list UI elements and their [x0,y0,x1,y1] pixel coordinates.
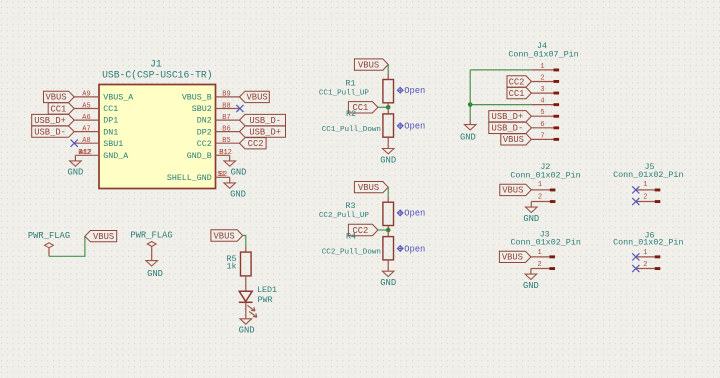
global label USB_D+ (J1 B6) [240,126,286,137]
ground symbol at J3 pin2 [530,269,532,275]
global label VBUS above R3 [354,182,388,193]
power flag PFLAG2 [151,247,153,255]
svg-text:CC1: CC1 [509,89,525,99]
svg-text:R2: R2 [346,109,356,119]
svg-text:A6: A6 [82,114,90,122]
svg-text:Open: Open [404,244,425,254]
global label CC1 (J1 A5) [48,103,74,114]
svg-text:J1: J1 [150,58,162,69]
svg-text:GND: GND [380,278,396,288]
svg-text:1: 1 [643,181,647,189]
svg-text:1: 1 [540,63,544,71]
global label USB_D+ (J1 A6) [32,114,74,125]
ground symbol at J1 SHELL_GND [229,177,231,183]
svg-text:CC1: CC1 [103,105,118,114]
svg-text:DP2: DP2 [197,128,212,137]
svg-text:R4: R4 [346,232,356,242]
J5 pin 1 [636,189,655,191]
ground symbol at J2 pin2 [530,202,532,208]
resistor R1 CC1_Pull_UP [387,73,389,80]
global label VBUS above R1 [354,59,388,70]
ground symbol below R4 [387,266,389,272]
junction CC2 node [386,228,391,233]
global label VBUS (J3 pin1) [499,251,531,262]
wire R5 to LED1 [245,276,247,291]
global label CC1 at R1/R2 junction [348,102,378,113]
svg-text:PWR: PWR [257,295,272,305]
svg-text:5: 5 [540,109,544,117]
J3 pin 2 [531,268,550,270]
DNP Open flag of R4 [397,246,403,252]
J4 pin 7 [531,138,553,140]
wire PWR_FLAG to VBUS label [49,236,85,256]
J1 pin S1 (SHELL_GND) stacked numbers [216,176,230,178]
global label CC2 (J1 B5) [240,138,267,149]
DNP Open flag of R1 [397,87,403,93]
resistor R4 CC2_Pull_Down [387,230,389,237]
J1 pin A9 (VBUS_A) [74,96,99,98]
global label CC2 at R3/R4 junction [348,224,378,235]
svg-text:CC1_Pull_Down: CC1_Pull_Down [322,126,381,134]
svg-text:GND: GND [523,214,539,224]
resistor R2 CC1_Pull_Down [387,107,389,114]
svg-text:CC2_Pull_Down: CC2_Pull_Down [322,248,381,256]
global label USB_D- (J4 pin6) [489,122,532,133]
J6 pin 1 [636,256,655,258]
svg-text:GND: GND [67,168,83,178]
svg-text:B7: B7 [222,114,230,122]
J6 pin 2 [636,268,655,270]
junction on J4 GND bus [468,102,473,107]
svg-text:2: 2 [643,261,647,269]
svg-text:VBUS: VBUS [93,232,114,242]
J2 pin 1 [531,189,550,191]
svg-text:CC1_Pull_UP: CC1_Pull_UP [319,89,370,97]
svg-text:GND_B: GND_B [187,152,212,161]
svg-text:VBUS: VBUS [358,60,379,70]
svg-text:VBUS: VBUS [502,253,523,263]
svg-text:A7: A7 [82,125,90,133]
J4 pin 2 [531,81,553,83]
junction CC1 node [386,105,391,110]
svg-text:VBUS: VBUS [214,231,235,241]
svg-text:USB_D+: USB_D+ [492,112,524,122]
global label VBUS (J1 A9) [44,91,75,102]
svg-text:B5: B5 [222,137,230,145]
svg-text:VBUS: VBUS [358,183,379,193]
svg-text:A9: A9 [82,91,90,99]
svg-text:USB_D-: USB_D- [34,127,66,137]
J3 pin 1 [531,256,550,258]
svg-text:VBUS: VBUS [45,93,66,103]
J4 pin 5 [531,115,553,117]
svg-text:GND: GND [380,155,396,165]
svg-text:USB_D-: USB_D- [492,124,524,134]
global label CC1 (J4 pin3) [507,87,531,98]
svg-text:B6: B6 [222,125,230,133]
svg-text:Conn_01x02_Pin: Conn_01x02_Pin [511,238,581,248]
no-connect X on J5 pin2 [632,198,639,205]
global label CC2 (J4 pin2) [507,76,531,87]
svg-text:GND: GND [460,133,476,143]
svg-text:2: 2 [643,193,647,201]
no-connect X on J1 pin A8 [71,140,78,147]
global label USB_D- (J1 B7) [240,114,286,125]
svg-text:VBUS_B: VBUS_B [182,94,212,103]
J4 pin 4 [531,104,553,106]
J1 pin A6 (DP1) [74,119,99,121]
svg-text:1k: 1k [226,262,236,272]
svg-text:GND: GND [230,190,246,200]
wire J4 pin4 to GND bus [470,104,531,106]
global label USB_D- (J1 A7) [32,126,74,137]
resistor R5 1k [245,246,247,252]
wire J4 pin1 to GND bus [470,69,531,71]
J4 pin 6 [531,127,553,129]
svg-text:Conn_01x07_Pin: Conn_01x07_Pin [508,49,578,59]
svg-text:Open: Open [404,209,425,219]
wire LED1 to GND [245,302,247,313]
svg-text:CC2: CC2 [197,140,212,149]
svg-text:A8: A8 [82,137,90,145]
svg-text:PWR_FLAG: PWR_FLAG [28,231,70,241]
ground symbol at PWR_FLAG2 [151,255,153,261]
ground symbol at J1 GND_B [229,155,231,161]
no-connect X on J6 pin1 [632,253,639,260]
svg-text:1: 1 [538,181,542,189]
svg-text:B8: B8 [222,102,230,110]
svg-text:CC1: CC1 [50,104,66,114]
svg-text:CC2: CC2 [248,139,264,149]
svg-text:1: 1 [643,249,647,257]
svg-text:LED1: LED1 [257,285,277,295]
svg-text:VBUS_A: VBUS_A [103,94,133,103]
svg-text:7: 7 [540,132,544,140]
LED light arrows [247,305,255,311]
wire CC2 label to junction [378,229,388,231]
global label VBUS (J1 B9) [240,91,270,102]
resistor R3 CC2_Pull_UP [387,196,389,203]
J1 pin B1/B12 (GND_B) with stacked numbers [216,154,230,156]
wire VBUS label to R5 [243,236,246,247]
wire VBUS label to R1 [387,65,389,74]
svg-text:SBU2: SBU2 [192,105,212,114]
J4 pin 1 [531,69,553,71]
svg-text:SHELL_GND: SHELL_GND [167,174,212,183]
global label USB_D+ (J4 pin5) [489,111,532,122]
svg-text:B9: B9 [222,91,230,99]
svg-text:R1: R1 [345,79,355,89]
J4 pin 3 [531,92,553,94]
svg-text:GND: GND [239,326,255,336]
svg-text:VBUS: VBUS [502,186,523,196]
svg-text:VBUS: VBUS [503,135,524,145]
J1 pin A5 (CC1) [74,108,99,110]
svg-text:Open: Open [404,122,425,132]
power flag PFLAG1 [48,248,50,256]
wire VBUS label to R3 [387,187,389,196]
LED D1 (LED1 PWR) [239,291,252,301]
svg-text:Open: Open [404,86,425,96]
wire CC1 label to junction [378,106,388,108]
svg-text:2: 2 [537,261,541,269]
svg-text:4: 4 [540,98,544,106]
ground symbol below LED1 [245,313,247,319]
svg-text:DN1: DN1 [103,128,118,137]
J1 pin B8 (SBU2) [216,108,241,110]
J1 pin B5 (CC2) [216,142,241,144]
svg-text:GND_A: GND_A [103,152,128,161]
svg-text:3: 3 [540,86,544,94]
svg-text:USB_D+: USB_D+ [249,127,281,137]
J1 pin A1/A12/B1/B12 (GND_A) with stacked numbers [75,154,99,156]
svg-text:DN2: DN2 [197,117,212,126]
J5 pin 2 [636,201,655,203]
J2 pin 2 [531,201,550,203]
svg-text:A5: A5 [82,102,90,110]
ground symbol for J4 [469,119,471,125]
ground symbol below R2 [387,143,389,149]
svg-text:GND: GND [231,168,247,178]
J1 pin A8 (SBU1) [74,142,99,144]
svg-text:Conn_01x02_Pin: Conn_01x02_Pin [613,170,683,180]
svg-text:Conn_01x02_Pin: Conn_01x02_Pin [613,238,683,248]
svg-text:6: 6 [540,121,544,129]
connector J1 body [99,85,216,189]
global label VBUS above R5 [211,230,243,241]
DNP Open flag of R2 [397,123,403,129]
svg-text:USB-C(CSP-USC16-TR): USB-C(CSP-USC16-TR) [102,69,212,80]
svg-text:CC2_Pull_UP: CC2_Pull_UP [319,212,370,220]
ground symbol at J1 GND_A [74,155,76,161]
J1 pin B6 (DP2) [216,131,241,133]
J1 pin B7 (DN2) [216,119,241,121]
svg-text:2: 2 [538,193,542,201]
svg-text:VBUS: VBUS [247,93,268,103]
svg-text:PWR_FLAG: PWR_FLAG [130,230,172,240]
svg-text:GND: GND [147,269,163,279]
no-connect X on J6 pin2 [632,265,639,272]
global label VBUS at PWR_FLAG [85,231,117,242]
no-connect X on J1 pin B8 [236,105,243,112]
svg-text:2: 2 [540,74,544,82]
svg-text:USB_D+: USB_D+ [34,116,66,126]
svg-text:GND: GND [523,281,539,291]
DNP Open flag of R3 [397,210,403,216]
svg-text:Conn_01x02_Pin: Conn_01x02_Pin [510,171,580,181]
J1 pin B9 (VBUS_B) [216,96,241,98]
svg-text:CC2: CC2 [509,77,525,87]
svg-text:1: 1 [537,249,541,257]
svg-text:USB_D-: USB_D- [249,116,281,126]
global label VBUS (J2 pin1) [500,184,532,195]
global label VBUS (J4 pin7) [501,134,532,145]
J1 pin A7 (DN1) [74,131,99,133]
svg-text:R3: R3 [345,201,355,211]
svg-text:S2: S2 [219,171,227,179]
svg-text:SBU1: SBU1 [103,140,123,149]
no-connect X on J5 pin1 [632,186,639,193]
svg-text:B12: B12 [78,149,91,157]
svg-text:DP1: DP1 [103,117,118,126]
